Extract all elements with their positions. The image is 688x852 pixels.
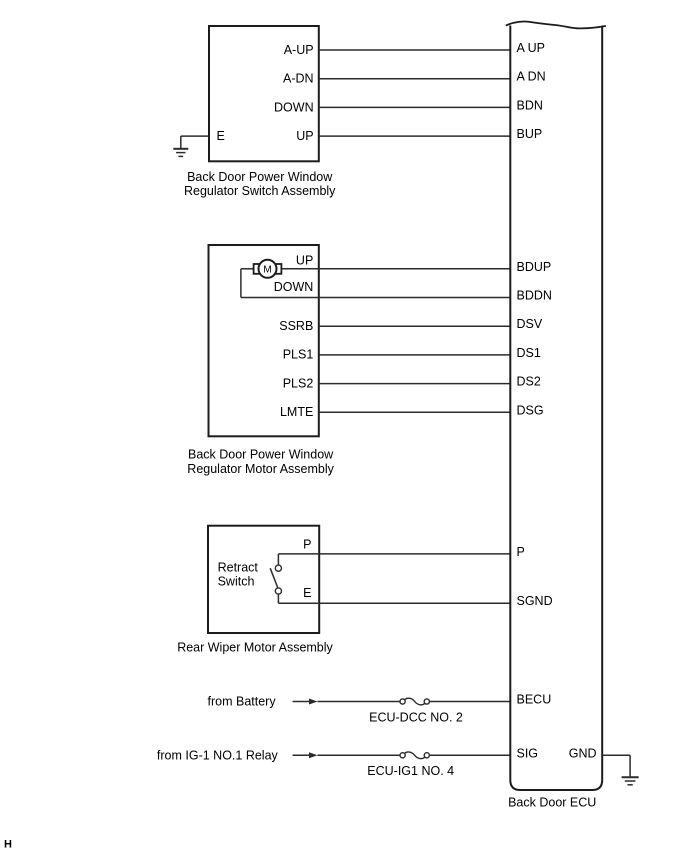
svg-text:Regulator Switch Assembly: Regulator Switch Assembly: [184, 184, 336, 198]
svg-text:P: P: [517, 545, 525, 559]
svg-text:DOWN: DOWN: [274, 100, 314, 114]
svg-text:SGND: SGND: [517, 594, 553, 608]
svg-text:Retract: Retract: [218, 560, 259, 574]
svg-text:BECU: BECU: [517, 693, 552, 707]
svg-text:Back Door Power Window: Back Door Power Window: [187, 170, 333, 184]
svg-text:PLS1: PLS1: [283, 348, 314, 362]
svg-text:SIG: SIG: [517, 746, 539, 760]
svg-text:BDDN: BDDN: [517, 289, 552, 303]
svg-text:A-UP: A-UP: [284, 43, 314, 57]
svg-text:Back Door Power Window: Back Door Power Window: [188, 448, 334, 462]
svg-text:Back Door ECU: Back Door ECU: [508, 795, 596, 809]
svg-text:A DN: A DN: [517, 70, 546, 84]
svg-text:A UP: A UP: [517, 41, 546, 55]
svg-text:E: E: [303, 586, 311, 600]
svg-text:DSG: DSG: [517, 403, 544, 417]
svg-text:DOWN: DOWN: [274, 280, 314, 294]
svg-text:UP: UP: [296, 129, 313, 143]
svg-text:ECU-DCC NO. 2: ECU-DCC NO. 2: [369, 711, 463, 725]
svg-text:Rear Wiper Motor Assembly: Rear Wiper Motor Assembly: [177, 641, 333, 655]
svg-text:SSRB: SSRB: [279, 319, 313, 333]
svg-text:A-DN: A-DN: [283, 72, 314, 86]
svg-text:Regulator Motor Assembly: Regulator Motor Assembly: [187, 462, 334, 476]
svg-text:from IG-1 NO.1 Relay: from IG-1 NO.1 Relay: [157, 748, 279, 762]
svg-text:E: E: [217, 129, 225, 143]
svg-text:BUP: BUP: [517, 127, 543, 141]
svg-text:BDUP: BDUP: [517, 260, 552, 274]
svg-text:M: M: [263, 264, 271, 275]
svg-text:DS1: DS1: [517, 346, 541, 360]
svg-text:GND: GND: [569, 746, 597, 760]
svg-text:H: H: [4, 838, 12, 850]
svg-text:DSV: DSV: [517, 317, 543, 331]
svg-text:BDN: BDN: [517, 98, 543, 112]
svg-text:P: P: [303, 538, 311, 552]
svg-text:ECU-IG1 NO. 4: ECU-IG1 NO. 4: [367, 764, 454, 778]
svg-text:from Battery: from Battery: [208, 695, 277, 709]
svg-text:LMTE: LMTE: [280, 405, 313, 419]
svg-text:PLS2: PLS2: [283, 376, 314, 390]
svg-text:DS2: DS2: [517, 375, 541, 389]
svg-text:UP: UP: [296, 254, 313, 268]
svg-text:Switch: Switch: [218, 574, 255, 588]
